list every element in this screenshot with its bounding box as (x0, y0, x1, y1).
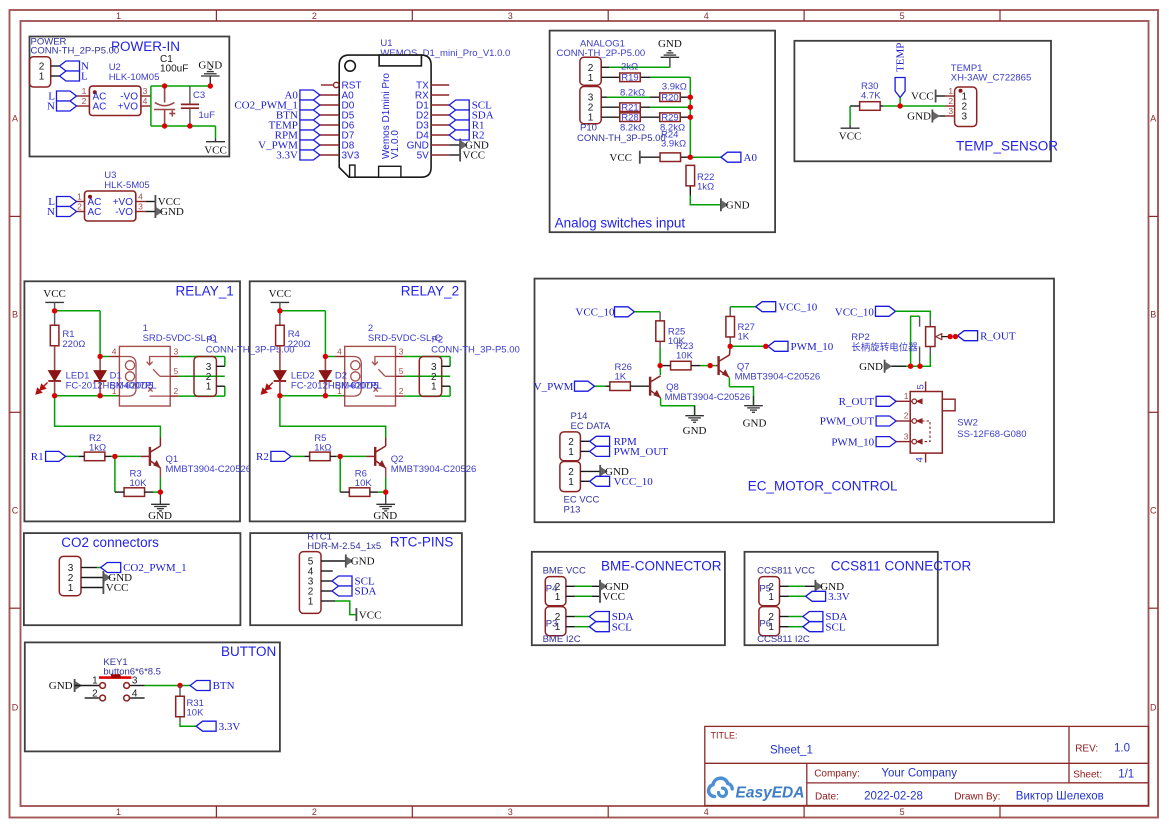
svg-text:R_OUT: R_OUT (980, 330, 1016, 342)
svg-text:3: 3 (143, 86, 148, 96)
svg-text:RELAY_2: RELAY_2 (401, 284, 459, 299)
svg-text:1: 1 (68, 583, 74, 594)
connector P10 (580, 87, 601, 124)
svg-text:SDA: SDA (355, 586, 377, 598)
net flag SCL (803, 622, 823, 632)
resistor R22 (686, 165, 695, 186)
svg-text:220Ω: 220Ω (288, 339, 311, 350)
net flag 3.3V (806, 591, 826, 601)
svg-text:3V3: 3V3 (342, 151, 360, 162)
svg-text:BTN: BTN (213, 680, 235, 692)
svg-text:3: 3 (132, 676, 138, 687)
svg-text:1: 1 (116, 807, 121, 817)
svg-text:BME VCC: BME VCC (543, 565, 586, 576)
svg-text:BUTTON: BUTTON (221, 644, 276, 659)
VCC flag (599, 590, 601, 603)
svg-text:1: 1 (568, 477, 574, 488)
svg-text:2: 2 (82, 96, 87, 106)
svg-text:CONN-TH_2P-P5.00: CONN-TH_2P-P5.00 (31, 46, 120, 57)
EasyEDA logo (709, 778, 805, 801)
svg-text:MMBT3904-C20526: MMBT3904-C20526 (391, 464, 477, 475)
svg-text:MMBT3904-C20526: MMBT3904-C20526 (166, 464, 252, 475)
net flag L (57, 197, 77, 207)
module body (339, 55, 431, 177)
svg-text:SS-12F68-G080: SS-12F68-G080 (957, 429, 1026, 440)
svg-text:C: C (1150, 506, 1157, 516)
svg-text:3.9kΩ: 3.9kΩ (661, 139, 686, 150)
svg-text:Your Company: Your Company (881, 768, 957, 780)
svg-text:Sheet:: Sheet: (1073, 770, 1102, 781)
svg-text:1: 1 (588, 73, 594, 84)
svg-text:1: 1 (77, 192, 82, 202)
svg-text:2: 2 (312, 11, 317, 21)
svg-text:1kΩ: 1kΩ (89, 443, 106, 454)
svg-text:2: 2 (77, 202, 82, 212)
GND flag (103, 571, 111, 584)
ground Q7 (744, 396, 763, 413)
svg-text:RELAY_1: RELAY_1 (176, 284, 234, 299)
svg-text:VCC: VCC (359, 609, 382, 621)
svg-text:3.9kΩ: 3.9kΩ (662, 82, 687, 93)
svg-text:1uF: 1uF (199, 110, 216, 121)
svg-text:GND: GND (907, 111, 931, 123)
svg-text:10K: 10K (130, 478, 148, 489)
connector ANALOG1 (580, 57, 601, 85)
svg-text:A: A (1150, 114, 1156, 124)
pin names (342, 81, 362, 162)
key KEY1 (75, 685, 100, 687)
svg-text:+VO: +VO (118, 102, 139, 113)
svg-text:1: 1 (768, 592, 774, 603)
svg-text:Drawn By:: Drawn By: (954, 792, 1000, 803)
svg-text:A0: A0 (744, 152, 758, 164)
svg-text:1: 1 (768, 622, 774, 633)
ground Q8 (685, 406, 704, 423)
svg-text:R_OUT: R_OUT (839, 396, 875, 408)
frame letters left (12, 114, 19, 713)
junction dots (162, 83, 213, 128)
svg-text:POWER-IN: POWER-IN (111, 39, 180, 54)
svg-text:VCC_10: VCC_10 (835, 306, 875, 318)
svg-text:3.3V: 3.3V (276, 150, 298, 162)
svg-text:长柄旋转电位器: 长柄旋转电位器 (851, 341, 918, 353)
resistor R27 (726, 316, 735, 337)
svg-text:Company:: Company: (814, 769, 860, 780)
net flag A0 (721, 152, 741, 162)
svg-text:GND: GND (683, 425, 707, 437)
wire pin2 (51, 65, 60, 67)
svg-text:1K: 1K (615, 372, 627, 383)
GND flag (932, 115, 945, 117)
net flag PWM_10 (876, 437, 896, 447)
wire pin1 (51, 75, 60, 77)
svg-text:VCC: VCC (839, 131, 862, 143)
svg-text:V_PWM: V_PWM (534, 381, 574, 393)
transistor Q8 (650, 376, 661, 398)
svg-text:R29: R29 (661, 112, 678, 123)
svg-text:3.3V: 3.3V (219, 721, 241, 733)
svg-text:4: 4 (704, 807, 709, 817)
connector RTC1 (299, 552, 321, 614)
svg-text:N: N (47, 101, 55, 113)
svg-text:D: D (1150, 702, 1157, 712)
svg-text:SRD-5VDC-SL-C: SRD-5VDC-SL-C (143, 333, 217, 344)
svg-text:R28: R28 (621, 112, 638, 123)
net flag CO2_PWM_1 (101, 563, 121, 573)
svg-text:RTC-PINS: RTC-PINS (390, 535, 454, 550)
svg-text:GND: GND (160, 206, 184, 218)
svg-text:C3: C3 (193, 90, 205, 101)
svg-text:PWM_OUT: PWM_OUT (820, 416, 875, 428)
svg-text:GND: GND (859, 361, 883, 373)
svg-text:10K: 10K (676, 350, 694, 361)
svg-text:R20: R20 (661, 92, 678, 103)
RST inversion bubble (334, 82, 339, 87)
wire to 3.3V (180, 723, 196, 727)
svg-text:5V: 5V (417, 151, 430, 162)
svg-text:SM4007PL: SM4007PL (335, 381, 382, 392)
right pin leads (431, 85, 449, 155)
svg-text:CCS811 I2C: CCS811 I2C (757, 634, 810, 645)
connector P61 (759, 607, 780, 636)
svg-text:2: 2 (904, 411, 909, 421)
svg-text:1: 1 (568, 447, 574, 458)
svg-text:VCC_10: VCC_10 (575, 307, 615, 319)
right net flags (449, 100, 469, 110)
wire top rail (151, 86, 216, 139)
svg-text:3: 3 (948, 106, 953, 116)
svg-text:5: 5 (900, 11, 905, 21)
svg-text:1: 1 (116, 11, 121, 21)
svg-text:VCC_10: VCC_10 (778, 301, 818, 313)
svg-text:4: 4 (915, 457, 926, 462)
relay block 2 (250, 281, 520, 522)
svg-text:MMBT3904-C20526: MMBT3904-C20526 (735, 371, 821, 382)
net flag N (57, 101, 77, 111)
svg-text:GND: GND (49, 680, 73, 692)
TEMP_SENSOR block (794, 41, 1058, 162)
junction dot (897, 103, 902, 108)
svg-text:1: 1 (92, 676, 98, 687)
net flag PWM_OUT (876, 416, 896, 426)
svg-text:CCS811 CONNECTOR: CCS811 CONNECTOR (831, 559, 972, 574)
net flag PWM_10 (768, 341, 788, 351)
VCC symbol (841, 125, 860, 128)
VCC flag (154, 195, 156, 208)
svg-text:SW2: SW2 (957, 418, 978, 429)
frame numbers top (116, 11, 905, 21)
GND flag (885, 365, 906, 367)
svg-text:1kΩ: 1kΩ (314, 443, 331, 454)
net flag R_OUT (876, 396, 896, 406)
svg-text:CCS811 VCC: CCS811 VCC (757, 565, 815, 576)
connector P31 (545, 607, 566, 636)
svg-text:1: 1 (904, 391, 909, 401)
svg-text:Виктор Шелехов: Виктор Шелехов (1016, 791, 1104, 803)
svg-text:5: 5 (916, 384, 927, 389)
svg-text:VCC: VCC (463, 150, 486, 162)
svg-text:VCC: VCC (609, 152, 632, 164)
GND flag (600, 580, 608, 593)
svg-text:3: 3 (508, 11, 513, 21)
svg-text:VCC: VCC (106, 582, 129, 594)
svg-text:BME-CONNECTOR: BME-CONNECTOR (601, 559, 722, 574)
svg-text:1: 1 (555, 592, 561, 603)
frame numbers bottom (116, 807, 905, 817)
svg-text:GND: GND (658, 38, 682, 50)
svg-text:PWM_10: PWM_10 (791, 341, 834, 353)
svg-text:VCC: VCC (911, 91, 934, 103)
svg-text:SRD-5VDC-SL-C: SRD-5VDC-SL-C (368, 333, 442, 344)
net flag VCC_10 right (756, 302, 776, 312)
GND flag (75, 679, 83, 692)
U2 pin leads (77, 96, 151, 106)
svg-text:8.2kΩ: 8.2kΩ (620, 123, 645, 134)
svg-text:CONN-TH_3P-P5.00: CONN-TH_3P-P5.00 (431, 345, 520, 356)
svg-text:VCC: VCC (204, 145, 227, 157)
wires (601, 67, 690, 195)
wire to BTN (145, 685, 191, 687)
net flag L (60, 71, 80, 81)
connector P4 (545, 577, 566, 606)
U3 HLK-5M05 (47, 170, 184, 221)
svg-text:2: 2 (312, 807, 317, 817)
GND flag (721, 198, 729, 211)
svg-text:AC: AC (88, 207, 102, 218)
connector P5 (759, 577, 780, 606)
svg-text:1.0: 1.0 (1114, 743, 1130, 755)
svg-text:AC: AC (93, 102, 107, 113)
svg-text:1: 1 (555, 622, 561, 633)
svg-text:TEMP_SENSOR: TEMP_SENSOR (956, 139, 1058, 154)
VCC flag (936, 95, 946, 97)
GND flag (460, 139, 468, 152)
svg-text:3: 3 (138, 202, 143, 212)
svg-text:TEMP: TEMP (895, 43, 907, 72)
EC_MOTOR_CONTROL block (534, 279, 1054, 523)
GND flag (600, 465, 608, 478)
net flag SDA (332, 586, 352, 596)
CCS811 CONNECTOR block (745, 552, 972, 645)
svg-text:GND: GND (743, 418, 767, 430)
frame letters right (1150, 114, 1157, 713)
net flag SDA (803, 612, 823, 622)
svg-text:REV:: REV: (1075, 744, 1098, 755)
resistor R31 (179, 686, 181, 697)
svg-text:CO2 connectors: CO2 connectors (61, 535, 159, 550)
svg-text:220Ω: 220Ω (62, 339, 85, 350)
svg-text:R2: R2 (256, 451, 269, 463)
net flag RPM (590, 436, 610, 446)
svg-text:1K: 1K (738, 332, 750, 343)
CO2 connectors block (24, 533, 241, 625)
svg-text:R19: R19 (621, 72, 638, 83)
svg-text:10K: 10K (187, 708, 205, 719)
left net flags (300, 90, 320, 100)
svg-text:2kΩ: 2kΩ (621, 62, 638, 73)
svg-text:4: 4 (143, 96, 148, 106)
svg-text:5: 5 (900, 807, 905, 817)
svg-text:PWM_OUT: PWM_OUT (614, 446, 669, 458)
svg-text:GND: GND (726, 200, 750, 212)
svg-text:1kΩ: 1kΩ (697, 182, 714, 193)
svg-text:4: 4 (132, 688, 138, 699)
svg-text:2: 2 (948, 96, 953, 106)
junction dots (688, 95, 693, 160)
connector P13 (560, 462, 581, 492)
resistor R28 (620, 113, 641, 122)
net flag L (57, 91, 77, 101)
op-amp U1 WEMOS D1 mini Pro (234, 38, 510, 177)
GND flag (346, 555, 354, 568)
svg-text:3: 3 (904, 431, 909, 441)
svg-text:1/1: 1/1 (1118, 769, 1134, 781)
connector POWER (29, 57, 50, 87)
left pin leads (320, 85, 339, 155)
VCC flag (459, 149, 461, 162)
svg-text:SCL: SCL (612, 621, 632, 633)
VCC symbol (206, 139, 225, 142)
svg-text:B: B (1150, 310, 1156, 320)
svg-text:CONN-TH_2P-P5.00: CONN-TH_2P-P5.00 (557, 48, 646, 59)
svg-text:EC_MOTOR_CONTROL: EC_MOTOR_CONTROL (748, 479, 898, 494)
svg-text:PWM_10: PWM_10 (831, 436, 874, 448)
svg-text:A: A (12, 114, 18, 124)
wire to VCC (335, 601, 356, 615)
svg-text:10K: 10K (355, 478, 373, 489)
svg-text:GND: GND (351, 556, 375, 568)
svg-text:Analog switches input: Analog switches input (555, 216, 686, 231)
svg-text:3: 3 (508, 807, 513, 817)
svg-text:Sheet_1: Sheet_1 (770, 745, 813, 757)
svg-text:R1: R1 (31, 451, 44, 463)
svg-text:1: 1 (39, 72, 45, 83)
svg-text:1: 1 (82, 86, 87, 96)
net flag SCL (332, 576, 352, 586)
Analog switches input block (550, 31, 776, 233)
svg-text:3.3V: 3.3V (828, 591, 850, 603)
svg-text:HLK-5M05: HLK-5M05 (104, 180, 149, 191)
svg-text:TITLE:: TITLE: (711, 731, 738, 741)
svg-text:4: 4 (138, 192, 143, 202)
BME-CONNECTOR block (532, 552, 725, 645)
title block (705, 726, 1149, 805)
svg-text:V1.0.0: V1.0.0 (390, 130, 401, 159)
net flag N (57, 207, 77, 217)
wires left half (595, 307, 766, 416)
svg-text:1: 1 (948, 86, 953, 96)
wires (850, 105, 860, 107)
svg-text:C: C (12, 506, 19, 516)
svg-text:L: L (81, 71, 88, 83)
GND flag (815, 580, 823, 593)
svg-text:D: D (12, 702, 19, 712)
svg-text:XH-3AW_C722865: XH-3AW_C722865 (951, 73, 1031, 84)
BUTTON block (25, 642, 280, 751)
svg-text:4: 4 (704, 11, 709, 21)
VCC flag (102, 581, 104, 594)
svg-text:HLK-10M05: HLK-10M05 (109, 72, 160, 83)
svg-text:VCC_10: VCC_10 (614, 476, 654, 488)
svg-text:EasyEDA: EasyEDA (736, 785, 805, 802)
connector 3p (59, 556, 81, 595)
svg-text:CONN-TH_3P-P5.00: CONN-TH_3P-P5.00 (577, 133, 666, 144)
net flag VCC_10 (590, 476, 610, 486)
svg-text:BME I2C: BME I2C (543, 634, 581, 645)
svg-text:VCC: VCC (602, 591, 625, 603)
svg-text:1: 1 (308, 597, 314, 608)
net flag N (60, 61, 80, 71)
net flag SDA (589, 612, 609, 622)
resistor R29 (660, 113, 681, 122)
transistor Q7 (716, 365, 719, 367)
net flag R_OUT (958, 331, 978, 341)
svg-text:Date:: Date: (815, 792, 839, 803)
svg-text:EC DATA: EC DATA (571, 421, 611, 432)
svg-text:-VO: -VO (115, 207, 133, 218)
svg-text:B: B (12, 310, 18, 320)
POWER-IN block (29, 37, 229, 157)
junction dots (657, 344, 768, 369)
svg-text:8.2kΩ: 8.2kΩ (620, 88, 645, 99)
svg-text:2: 2 (92, 688, 98, 699)
svg-text:2022-02-28: 2022-02-28 (864, 791, 923, 803)
svg-text:P13: P13 (564, 505, 581, 516)
svg-text:SCL: SCL (825, 621, 845, 633)
relay block 1 (24, 281, 294, 522)
resistor R25 (656, 321, 665, 342)
svg-text:4.7K: 4.7K (861, 91, 881, 102)
svg-text:MMBT3904-C20526: MMBT3904-C20526 (665, 392, 751, 403)
svg-text:N: N (47, 206, 55, 218)
svg-text:CO2_PWM_1: CO2_PWM_1 (123, 562, 187, 574)
net flag SCL (589, 622, 609, 632)
RTC-PINS block (250, 532, 462, 626)
svg-text:3: 3 (962, 112, 968, 123)
svg-text:SM4007PL: SM4007PL (110, 381, 157, 392)
GND flag (155, 205, 163, 218)
svg-text:HDR-M-2.54_1x5: HDR-M-2.54_1x5 (307, 541, 381, 552)
svg-text:100uF: 100uF (160, 64, 188, 75)
net flag PWM_OUT (590, 446, 610, 456)
